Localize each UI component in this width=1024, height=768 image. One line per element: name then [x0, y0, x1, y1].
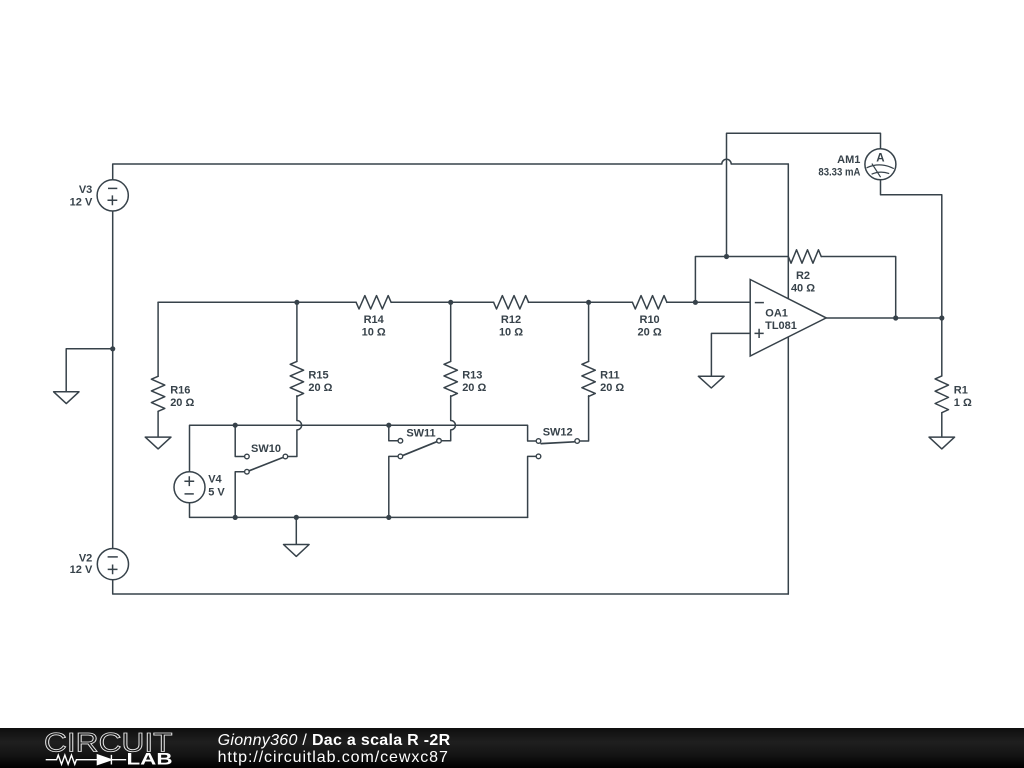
- svg-text:10 Ω: 10 Ω: [362, 326, 386, 338]
- voltage source V2: [97, 549, 128, 580]
- svg-text:20 Ω: 20 Ω: [638, 326, 662, 338]
- wire V4 bottom rail (ground bus): [190, 502, 528, 517]
- resistor R2 (horizontal 40 ohm feedback): [788, 250, 821, 263]
- wire R11 bottom to SW12 common: [580, 396, 589, 441]
- node dot ladder rail to op-amp: [693, 300, 698, 305]
- svg-text:LAB: LAB: [127, 751, 173, 768]
- switch SW11 terminal circles: [398, 439, 403, 444]
- wire SW10 lower-left terminal to ground bus: [235, 472, 244, 518]
- svg-text:A: A: [876, 153, 884, 165]
- wire SW11 lower-left terminal to ground bus: [389, 456, 398, 517]
- svg-text:TL081: TL081: [765, 320, 797, 332]
- wire R15 top: [296, 302, 298, 361]
- ammeter AM1: [865, 149, 896, 180]
- wire op-amp output: [826, 317, 942, 319]
- node dot SW11 on ground bus: [386, 515, 391, 520]
- wire V3 top to positive supply rail (y=164) with hop at x=726.5: [113, 159, 789, 180]
- svg-text:R16: R16: [170, 385, 190, 397]
- svg-text:Gionny360 / Dac a scala R -2R: Gionny360 / Dac a scala R -2R: [218, 732, 451, 749]
- wire R13 bottom to SW11 common with hop over 5V rail: [442, 396, 456, 441]
- wire ladder top rail segment R16..R14: [158, 301, 356, 303]
- switch SW10 lever: [249, 458, 283, 471]
- svg-text:SW12: SW12: [543, 427, 573, 439]
- svg-text:SW10: SW10: [251, 443, 281, 455]
- resistor R14 (horizontal 10 ohm): [356, 296, 391, 309]
- wire right supply column x=788.3 (passes behind op-amp): [787, 164, 789, 594]
- svg-text:R1: R1: [954, 385, 968, 397]
- switch SW10 terminal circles: [245, 454, 250, 459]
- resistor R16 (vertical 20 ohm): [151, 376, 164, 411]
- node dot R15 top: [294, 300, 299, 305]
- ground G3 under bottom bus: [284, 545, 310, 557]
- svg-text:20 Ω: 20 Ω: [462, 382, 486, 394]
- svg-text:1 Ω: 1 Ω: [954, 397, 972, 409]
- voltage source V3: [97, 180, 128, 211]
- node dot R11 top: [586, 300, 591, 305]
- svg-text:OA1: OA1: [765, 308, 788, 320]
- CircuitLab logo resistor-diode squiggle: [46, 755, 127, 765]
- svg-text:V2: V2: [79, 552, 92, 564]
- resistor R13 (vertical 20 ohm): [444, 361, 457, 396]
- wire 5V rail from V4 top across switches: [190, 425, 536, 472]
- wire SW12 lower-left terminal to ground bus end: [528, 456, 536, 517]
- svg-text:AM1: AM1: [837, 154, 860, 166]
- node dot ground tap on ground bus: [294, 515, 299, 520]
- node dot SW10 on ground bus: [233, 515, 238, 520]
- ground G4 at op-amp plus input: [698, 376, 724, 388]
- switch SW11 lever: [403, 442, 437, 456]
- wire feedback node column and R2 left segment (y=256.5): [695, 257, 788, 303]
- wire V2 bottom rail (y=594): [113, 580, 789, 594]
- svg-text:R2: R2: [796, 270, 810, 282]
- resistor R1 (vertical 1 ohm load): [935, 376, 948, 413]
- wire R16 bottom: [157, 412, 159, 438]
- svg-text:V4: V4: [208, 473, 222, 485]
- node dot R2 right at output: [893, 315, 898, 320]
- wire ammeter branch: feedback tap up, across, down to AM1: [727, 133, 881, 256]
- wire SW10 upper-left terminal from 5V rail: [235, 425, 244, 456]
- voltage source V4: [174, 472, 205, 503]
- wire V3 to V2 column x=112.7: [112, 211, 114, 548]
- wire R16 top: [157, 302, 159, 376]
- wire ladder rail segment R10..op-amp minus input: [667, 301, 750, 303]
- wire SW11 upper-left terminal from 5V rail: [389, 425, 398, 441]
- ground G1: [54, 392, 79, 404]
- node dot V3 ground stub: [110, 346, 115, 351]
- switch SW12 terminal circles: [536, 439, 541, 444]
- wire R2 right to output node: [821, 257, 896, 319]
- node dot output to R1: [939, 315, 944, 320]
- wire ladder rail segment R12..R10: [528, 301, 632, 303]
- svg-text:5 V: 5 V: [208, 487, 225, 499]
- node dot SW10 on 5V rail: [233, 423, 238, 428]
- svg-text:12 V: 12 V: [70, 564, 93, 576]
- wire AM1 bottom to output node: [881, 180, 942, 318]
- wire op-amp plus input to ground: [711, 333, 750, 376]
- node dot SW11 on 5V rail: [386, 423, 391, 428]
- node dot R13 top: [448, 300, 453, 305]
- svg-text:12 V: 12 V: [70, 197, 93, 209]
- resistor R11 (vertical 20 ohm): [582, 361, 595, 396]
- svg-text:R14: R14: [364, 314, 385, 326]
- svg-text:http://circuitlab.com/cewxc87: http://circuitlab.com/cewxc87: [218, 749, 449, 766]
- svg-text:R13: R13: [462, 370, 482, 382]
- wire R13 top: [450, 302, 452, 361]
- svg-text:10 Ω: 10 Ω: [499, 326, 523, 338]
- wire R15 bottom to SW10 common with hop over 5V rail: [288, 396, 301, 457]
- svg-text:R12: R12: [501, 314, 521, 326]
- wire R1 top: [941, 318, 943, 376]
- wire ladder rail segment R14..R12: [391, 301, 493, 303]
- ground G5 under R1: [929, 437, 955, 449]
- svg-text:R15: R15: [308, 370, 328, 382]
- svg-text:20 Ω: 20 Ω: [600, 382, 624, 394]
- svg-text:83.33 mA: 83.33 mA: [818, 166, 860, 178]
- resistor R12 (horizontal 10 ohm): [494, 296, 529, 309]
- svg-text:40 Ω: 40 Ω: [791, 283, 815, 295]
- resistor R15 (vertical 20 ohm): [290, 361, 303, 396]
- svg-text:20 Ω: 20 Ω: [170, 397, 194, 409]
- wire R1 bottom: [941, 413, 943, 437]
- node dot feedback tap: [724, 254, 729, 259]
- wire ground stub left of V3 column: [66, 349, 113, 392]
- svg-text:R10: R10: [640, 314, 660, 326]
- svg-text:V3: V3: [79, 184, 92, 196]
- op-amp OA1 triangle: [750, 280, 826, 357]
- svg-text:20 Ω: 20 Ω: [308, 382, 332, 394]
- resistor R10 (horizontal 20 ohm): [632, 296, 667, 309]
- wire R11 top: [588, 302, 590, 361]
- ground G2 under R16: [145, 437, 171, 449]
- wire ground tap on bottom bus: [295, 517, 297, 544]
- svg-text:SW11: SW11: [406, 427, 435, 439]
- switch SW12 lever: [541, 442, 575, 444]
- svg-text:R11: R11: [600, 370, 620, 382]
